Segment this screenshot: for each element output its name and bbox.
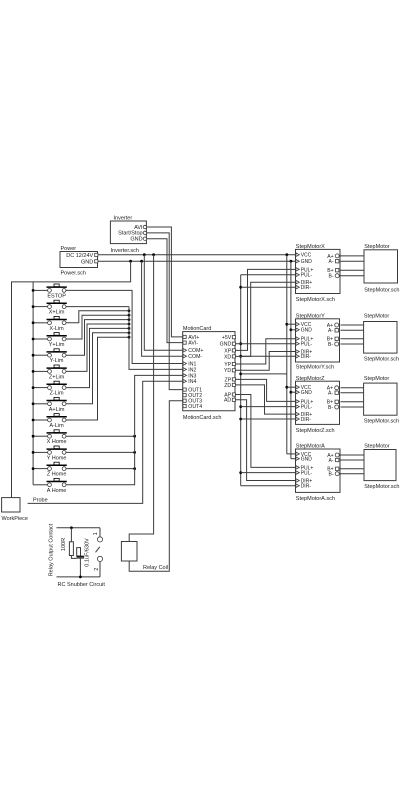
junction Y Home on common bus <box>32 451 35 454</box>
svg-text:PUL-: PUL- <box>301 273 313 279</box>
svg-text:A-: A- <box>328 328 333 334</box>
junction A+Lim on common bus <box>32 402 35 405</box>
MotionCard pin COM+ <box>183 349 186 353</box>
wire StepMotorZ A+ to StepMotor <box>341 387 364 389</box>
svg-text:X-Lim: X-Lim <box>49 326 64 332</box>
svg-text:2: 2 <box>94 568 100 571</box>
wire StepMotorZ A- to StepMotor <box>341 392 364 394</box>
svg-text:Y+Lim: Y+Lim <box>49 342 65 348</box>
svg-text:MotionCard.sch: MotionCard.sch <box>183 415 222 421</box>
svg-text:StepMotorA.sch: StepMotorA.sch <box>296 496 335 502</box>
junction VCC bus Y <box>285 323 288 326</box>
StepMotorY pin DIR- <box>296 354 299 358</box>
StepMotorY pin VCC <box>296 322 299 326</box>
svg-text:AVI-: AVI- <box>188 341 198 347</box>
wire XD to StepMotorX DIR+ <box>235 282 296 356</box>
wire Inverter Start/Stop to MotionCard OUT1 <box>147 233 183 390</box>
wire resistor to capacitor <box>71 556 76 559</box>
pushbutton switch Y-Lim <box>33 349 67 364</box>
hierarchical block Power <box>60 246 98 276</box>
StepMotorX pin VCC <box>296 253 299 257</box>
hierarchical block StepMotorY <box>296 313 340 370</box>
svg-text:DIR-: DIR- <box>301 484 312 490</box>
svg-text:A-: A- <box>329 259 334 265</box>
svg-text:Y Home: Y Home <box>47 455 67 461</box>
pushbutton switch ESTOP <box>33 284 67 299</box>
wire GND bus to StepMotorA GND <box>291 458 296 460</box>
wire StepMotorY B+ to StepMotor <box>341 338 364 340</box>
relay coil box <box>121 542 137 562</box>
svg-text:B-: B- <box>328 405 333 411</box>
wire Z Home to home bus <box>66 468 135 470</box>
wire StepMotorA B+ to StepMotor <box>341 468 365 470</box>
svg-text:100R: 100R <box>61 538 67 551</box>
junction V+ rail branch relay <box>152 253 155 256</box>
svg-text:B-: B- <box>328 342 333 348</box>
relay contact blade <box>96 547 100 553</box>
MotionCard pin IN1 <box>183 362 186 366</box>
svg-text:StepMotorX.sch: StepMotorX.sch <box>296 297 335 303</box>
StepMotorA pin PUL+ <box>296 466 299 470</box>
capacitor 0.1uF/630V <box>77 538 91 577</box>
wire Probe to MotionCard IN4 <box>28 381 183 503</box>
wire GND branch to MotionCard COM- <box>142 261 183 356</box>
svg-text:Inverter.sch: Inverter.sch <box>111 248 139 254</box>
junction Z Home on home bus <box>133 467 136 470</box>
StepMotorY pin GND <box>296 328 299 332</box>
wire GND net stub to VCC bus <box>241 373 287 375</box>
svg-text:1: 1 <box>93 532 99 535</box>
wire MC GND to StepMotorX PUL- <box>241 274 296 276</box>
svg-text:PUL-: PUL- <box>301 342 313 348</box>
svg-text:VCC: VCC <box>301 253 312 259</box>
junction GND bus Y <box>290 328 293 331</box>
junction GND rail branch COM- <box>140 260 143 263</box>
junction ESTOP on common bus <box>32 289 35 292</box>
MotionCard pin AVI+ <box>183 335 186 338</box>
svg-text:GND: GND <box>301 457 313 463</box>
StepMotorY pin PUL- <box>296 342 299 346</box>
wire GND branch to switch common bus <box>12 261 131 497</box>
pushbutton switch Z Home <box>33 462 67 477</box>
svg-text:+5V: +5V <box>222 335 232 341</box>
junction snubber bottom <box>79 576 82 579</box>
svg-text:Probe: Probe <box>33 498 48 504</box>
StepMotorX pin PUL- <box>296 273 299 277</box>
junction X-Lim on common bus <box>32 321 35 324</box>
MotionCard pin OUT2 <box>183 394 186 397</box>
wire GND net to StepMotorX DIR- <box>241 286 296 288</box>
svg-text:GND: GND <box>301 259 313 265</box>
svg-text:GND: GND <box>220 342 232 348</box>
pushbutton switch X-Lim <box>33 316 67 331</box>
StepMotorA pin VCC <box>296 452 299 456</box>
wire A-Lim to limit bus <box>66 337 129 420</box>
MotionCard pin COM- <box>183 354 186 358</box>
junction A-Lim on limit bus <box>128 336 131 339</box>
svg-text:Z-Lim: Z-Lim <box>50 391 64 397</box>
StepMotorZ pin VCC <box>296 385 299 389</box>
svg-text:0.1uF/630V: 0.1uF/630V <box>84 538 90 567</box>
junction VCC bus Z <box>285 386 288 389</box>
svg-text:StepMotor: StepMotor <box>364 376 390 382</box>
wire StepMotorA A+ to StepMotor <box>341 454 365 456</box>
junction GND net A PUL- <box>239 471 242 474</box>
svg-text:X Home: X Home <box>47 439 67 445</box>
wire ZP to StepMotorZ PUL+ <box>235 379 296 401</box>
wire VCC bus to StepMotorA VCC <box>287 453 296 455</box>
wire GND net to StepMotorZ PUL- <box>241 406 296 408</box>
wire GND bus to StepMotorY GND <box>291 329 296 331</box>
junction Y-Lim on common bus <box>32 354 35 357</box>
wire X-Lim to limit bus <box>66 311 129 323</box>
wire StepMotorX A+ to StepMotor <box>341 255 365 257</box>
svg-text:StepMotor.sch: StepMotor.sch <box>364 287 399 293</box>
StepMotorX pin DIR- <box>296 285 299 289</box>
svg-text:StepMotorY.sch: StepMotorY.sch <box>296 365 334 371</box>
junction GND net stub <box>239 373 242 376</box>
wire ESTOP to MotionCard IN1 <box>66 290 183 363</box>
svg-text:GND: GND <box>301 390 313 396</box>
wire GND bus vertical <box>290 261 292 459</box>
wire V+ rail Power to StepMotorX VCC <box>98 254 296 256</box>
wire YD to StepMotorY DIR+ <box>235 352 296 371</box>
StepMotorA pin PUL- <box>296 471 299 475</box>
svg-text:StepMotor.sch: StepMotor.sch <box>364 356 399 362</box>
svg-text:A Home: A Home <box>47 488 67 494</box>
wire snubber bottom <box>57 576 101 578</box>
block StepMotor for StepMotorX <box>364 244 399 293</box>
wire GND net to StepMotorZ DIR- <box>241 418 296 420</box>
svg-text:DIR-: DIR- <box>301 285 312 291</box>
wire StepMotorZ B+ to StepMotor <box>341 401 364 403</box>
junction GND net at GND pin <box>239 342 242 345</box>
svg-text:ZD: ZD <box>224 383 231 389</box>
StepMotorX pin GND <box>296 259 299 263</box>
svg-text:Relay Output Contact: Relay Output Contact <box>48 523 54 576</box>
StepMotorY pin PUL+ <box>296 337 299 341</box>
pushbutton switch X Home <box>33 430 67 445</box>
svg-text:StepMotor: StepMotor <box>364 244 390 250</box>
wire A Home and home bus to MotionCard IN3 <box>66 375 183 484</box>
wire YP to StepMotorY PUL+ <box>235 339 296 364</box>
wire XP to StepMotorX PUL+ <box>235 269 296 350</box>
hierarchical block StepMotorZ <box>296 376 340 434</box>
MotionCard pin AVI- <box>183 341 186 344</box>
StepMotorZ pin DIR- <box>296 417 299 421</box>
junction Z+Lim on limit bus <box>128 323 131 326</box>
svg-text:B-: B- <box>329 274 334 280</box>
wire AD to StepMotorA DIR+ <box>235 400 296 481</box>
wire StepMotorX B- to StepMotor <box>341 275 365 277</box>
junction Y Home on home bus <box>133 451 136 454</box>
junction V+ rail branch VCC bus <box>285 253 288 256</box>
MotionCard pin OUT4 <box>183 405 186 408</box>
wire VCC bus to StepMotorY VCC <box>287 323 296 325</box>
pushbutton switch A+Lim <box>33 397 67 412</box>
wire Y Home to home bus <box>66 451 135 453</box>
wire StepMotorX B+ to StepMotor <box>341 269 365 271</box>
svg-text:XD: XD <box>224 354 231 360</box>
wire Z+Lim to limit bus <box>66 324 129 371</box>
svg-text:GND: GND <box>301 328 313 334</box>
pushbutton switch Y Home <box>33 446 67 461</box>
StepMotorX pin PUL+ <box>296 268 299 272</box>
svg-text:StepMotor: StepMotor <box>364 444 390 450</box>
svg-text:COM-: COM- <box>188 354 202 360</box>
junction A-Lim on common bus <box>32 419 35 422</box>
wire relay coil bottom to MotionCard OUT3 <box>129 401 183 572</box>
wire VCC bus vertical <box>286 255 288 454</box>
junction snubber top <box>70 526 73 529</box>
wire V+ branch to MotionCard COM+ <box>144 255 182 351</box>
junction Y-Lim on limit bus <box>128 318 131 321</box>
wire MC GND pin to StepMotorY PUL- <box>235 343 296 345</box>
StepMotorZ pin GND <box>296 390 299 394</box>
pushbutton switch Z-Lim <box>33 381 67 396</box>
svg-text:IN4: IN4 <box>188 379 196 385</box>
junction V+ rail branch COM+ <box>143 253 146 256</box>
svg-text:RC Snubber Circuit: RC Snubber Circuit <box>58 582 106 588</box>
MotionCard pin OUT3 <box>183 399 186 402</box>
wire switch common bus vertical <box>32 282 34 485</box>
svg-text:YD: YD <box>224 368 231 374</box>
junction Y+Lim on common bus <box>32 338 35 341</box>
hierarchical block MotionCard <box>183 326 235 421</box>
hierarchical block StepMotorX <box>296 244 341 303</box>
svg-text:PUL-: PUL- <box>301 471 313 477</box>
MotionCard pin IN3 <box>183 374 186 378</box>
hierarchical block Inverter <box>110 216 146 255</box>
svg-text:X+Lim: X+Lim <box>49 310 65 316</box>
block StepMotor for StepMotorA <box>364 444 399 490</box>
junction Y+Lim on limit bus <box>128 314 131 317</box>
junction GND net Z PUL- <box>239 405 242 408</box>
StepMotorA pin DIR+ <box>296 479 299 483</box>
junction GND bus Z <box>290 391 293 394</box>
junction Z-Lim on common bus <box>32 386 35 389</box>
block StepMotor for StepMotorZ <box>364 376 399 425</box>
svg-text:WorkPiece: WorkPiece <box>2 516 29 522</box>
StepMotorZ pin PUL+ <box>296 400 299 404</box>
pushbutton switch X+Lim <box>33 300 67 315</box>
wire snubber top <box>57 527 101 529</box>
junction A+Lim on limit bus <box>128 331 131 334</box>
StepMotorY pin DIR+ <box>296 350 299 354</box>
junction X Home on home bus <box>133 435 136 438</box>
wire X Home to home bus <box>66 435 135 437</box>
svg-text:MotionCard: MotionCard <box>183 326 211 332</box>
junction GND rail branch GND bus <box>290 260 293 263</box>
StepMotorZ pin PUL- <box>296 405 299 409</box>
pushbutton switch A Home <box>33 478 67 493</box>
svg-text:ESTOP: ESTOP <box>47 293 66 299</box>
junction GND net Y DIR- <box>239 355 242 358</box>
wire GND bus to StepMotorZ GND <box>291 391 296 393</box>
wire StepMotorA A- to StepMotor <box>341 459 365 461</box>
junction GND net Z DIR- <box>239 418 242 421</box>
wire Z-Lim to limit bus <box>66 328 129 387</box>
junction GND net X DIR- <box>239 286 242 289</box>
wire StepMotorZ B- to StepMotor <box>341 406 364 408</box>
svg-text:Y-Lim: Y-Lim <box>50 358 64 364</box>
svg-text:AD: AD <box>224 398 231 404</box>
wire X+Lim to limit bus <box>66 306 129 308</box>
wire Y+Lim to limit bus <box>66 315 129 339</box>
wire StepMotorY B- to StepMotor <box>341 343 364 345</box>
svg-text:OUT4: OUT4 <box>188 404 202 410</box>
wire V+ branch to relay coil top <box>129 255 153 542</box>
svg-text:GND: GND <box>81 259 93 265</box>
wire GND net to StepMotorA DIR- <box>241 485 296 487</box>
svg-text:Z+Lim: Z+Lim <box>49 374 65 380</box>
MotionCard pin IN4 <box>183 379 186 383</box>
junction Z Home on common bus <box>32 467 35 470</box>
block StepMotor for StepMotorY <box>364 313 399 362</box>
hierarchical block StepMotorA <box>296 444 341 502</box>
StepMotorX pin DIR+ <box>296 280 299 284</box>
wire ZD to StepMotorZ DIR+ <box>235 385 296 414</box>
MotionCard pin OUT1 <box>183 388 186 391</box>
svg-text:StepMotor: StepMotor <box>364 313 390 319</box>
svg-text:StepMotor.sch: StepMotor.sch <box>364 419 399 425</box>
MotionCard pin IN2 <box>183 368 186 372</box>
svg-text:Z Home: Z Home <box>47 472 67 478</box>
relay contact 2 <box>94 556 103 577</box>
svg-text:B-: B- <box>329 472 334 478</box>
wire GND rail Power to StepMotorX GND <box>98 260 296 262</box>
svg-text:Power.sch: Power.sch <box>61 271 86 277</box>
svg-text:A-: A- <box>329 458 334 464</box>
wire GND net to StepMotorY DIR- <box>241 355 296 357</box>
pushbutton switch Y+Lim <box>33 333 67 348</box>
svg-text:A-Lim: A-Lim <box>49 423 64 429</box>
junction X-Lim on limit bus <box>128 309 131 312</box>
svg-text:DIR-: DIR- <box>301 354 312 360</box>
wire GND net to StepMotorA PUL- <box>241 472 296 474</box>
wire Y-Lim to limit bus <box>66 320 129 356</box>
junction X+Lim on common bus <box>32 305 35 308</box>
wire limit bus to MotionCard IN2 <box>129 307 183 370</box>
pushbutton switch Z+Lim <box>33 365 67 380</box>
svg-text:StepMotorZ.sch: StepMotorZ.sch <box>296 428 335 434</box>
wire Inverter AVI to MotionCard AVI+ <box>147 227 183 337</box>
svg-text:PUL-: PUL- <box>301 405 313 411</box>
wire VCC bus to StepMotorZ VCC <box>287 386 296 388</box>
StepMotorA pin GND <box>296 457 299 461</box>
wire A+Lim to limit bus <box>66 333 129 404</box>
junction Z-Lim on limit bus <box>128 327 131 330</box>
relay contact 1 <box>93 528 102 542</box>
StepMotorA pin DIR- <box>296 484 299 488</box>
wire MC GND net vertical <box>240 275 242 486</box>
junction Z+Lim on common bus <box>32 370 35 373</box>
pushbutton switch A-Lim <box>33 414 67 429</box>
svg-text:Relay Coil: Relay Coil <box>143 565 168 571</box>
wire AP to StepMotorA PUL+ <box>235 395 296 468</box>
block WorkPiece <box>2 498 20 512</box>
StepMotorZ pin DIR+ <box>296 412 299 416</box>
junction X Home on common bus <box>32 435 35 438</box>
svg-text:DIR-: DIR- <box>301 417 312 423</box>
wire Inverter GND to MotionCard AVI- <box>147 239 183 343</box>
svg-text:A-: A- <box>328 391 333 397</box>
wire StepMotorA B- to StepMotor <box>341 473 365 475</box>
svg-text:StepMotor.sch: StepMotor.sch <box>364 484 399 490</box>
svg-text:GND: GND <box>130 237 142 243</box>
wire StepMotorY A- to StepMotor <box>341 329 364 331</box>
junction GND rail branch switch common <box>129 260 132 263</box>
svg-text:YP: YP <box>224 362 231 368</box>
resistor 100R <box>61 528 74 556</box>
wire StepMotorY A+ to StepMotor <box>341 324 364 326</box>
wire StepMotorX A- to StepMotor <box>341 260 365 262</box>
svg-text:DC 12/24V: DC 12/24V <box>66 253 93 259</box>
svg-text:A+Lim: A+Lim <box>49 407 65 413</box>
